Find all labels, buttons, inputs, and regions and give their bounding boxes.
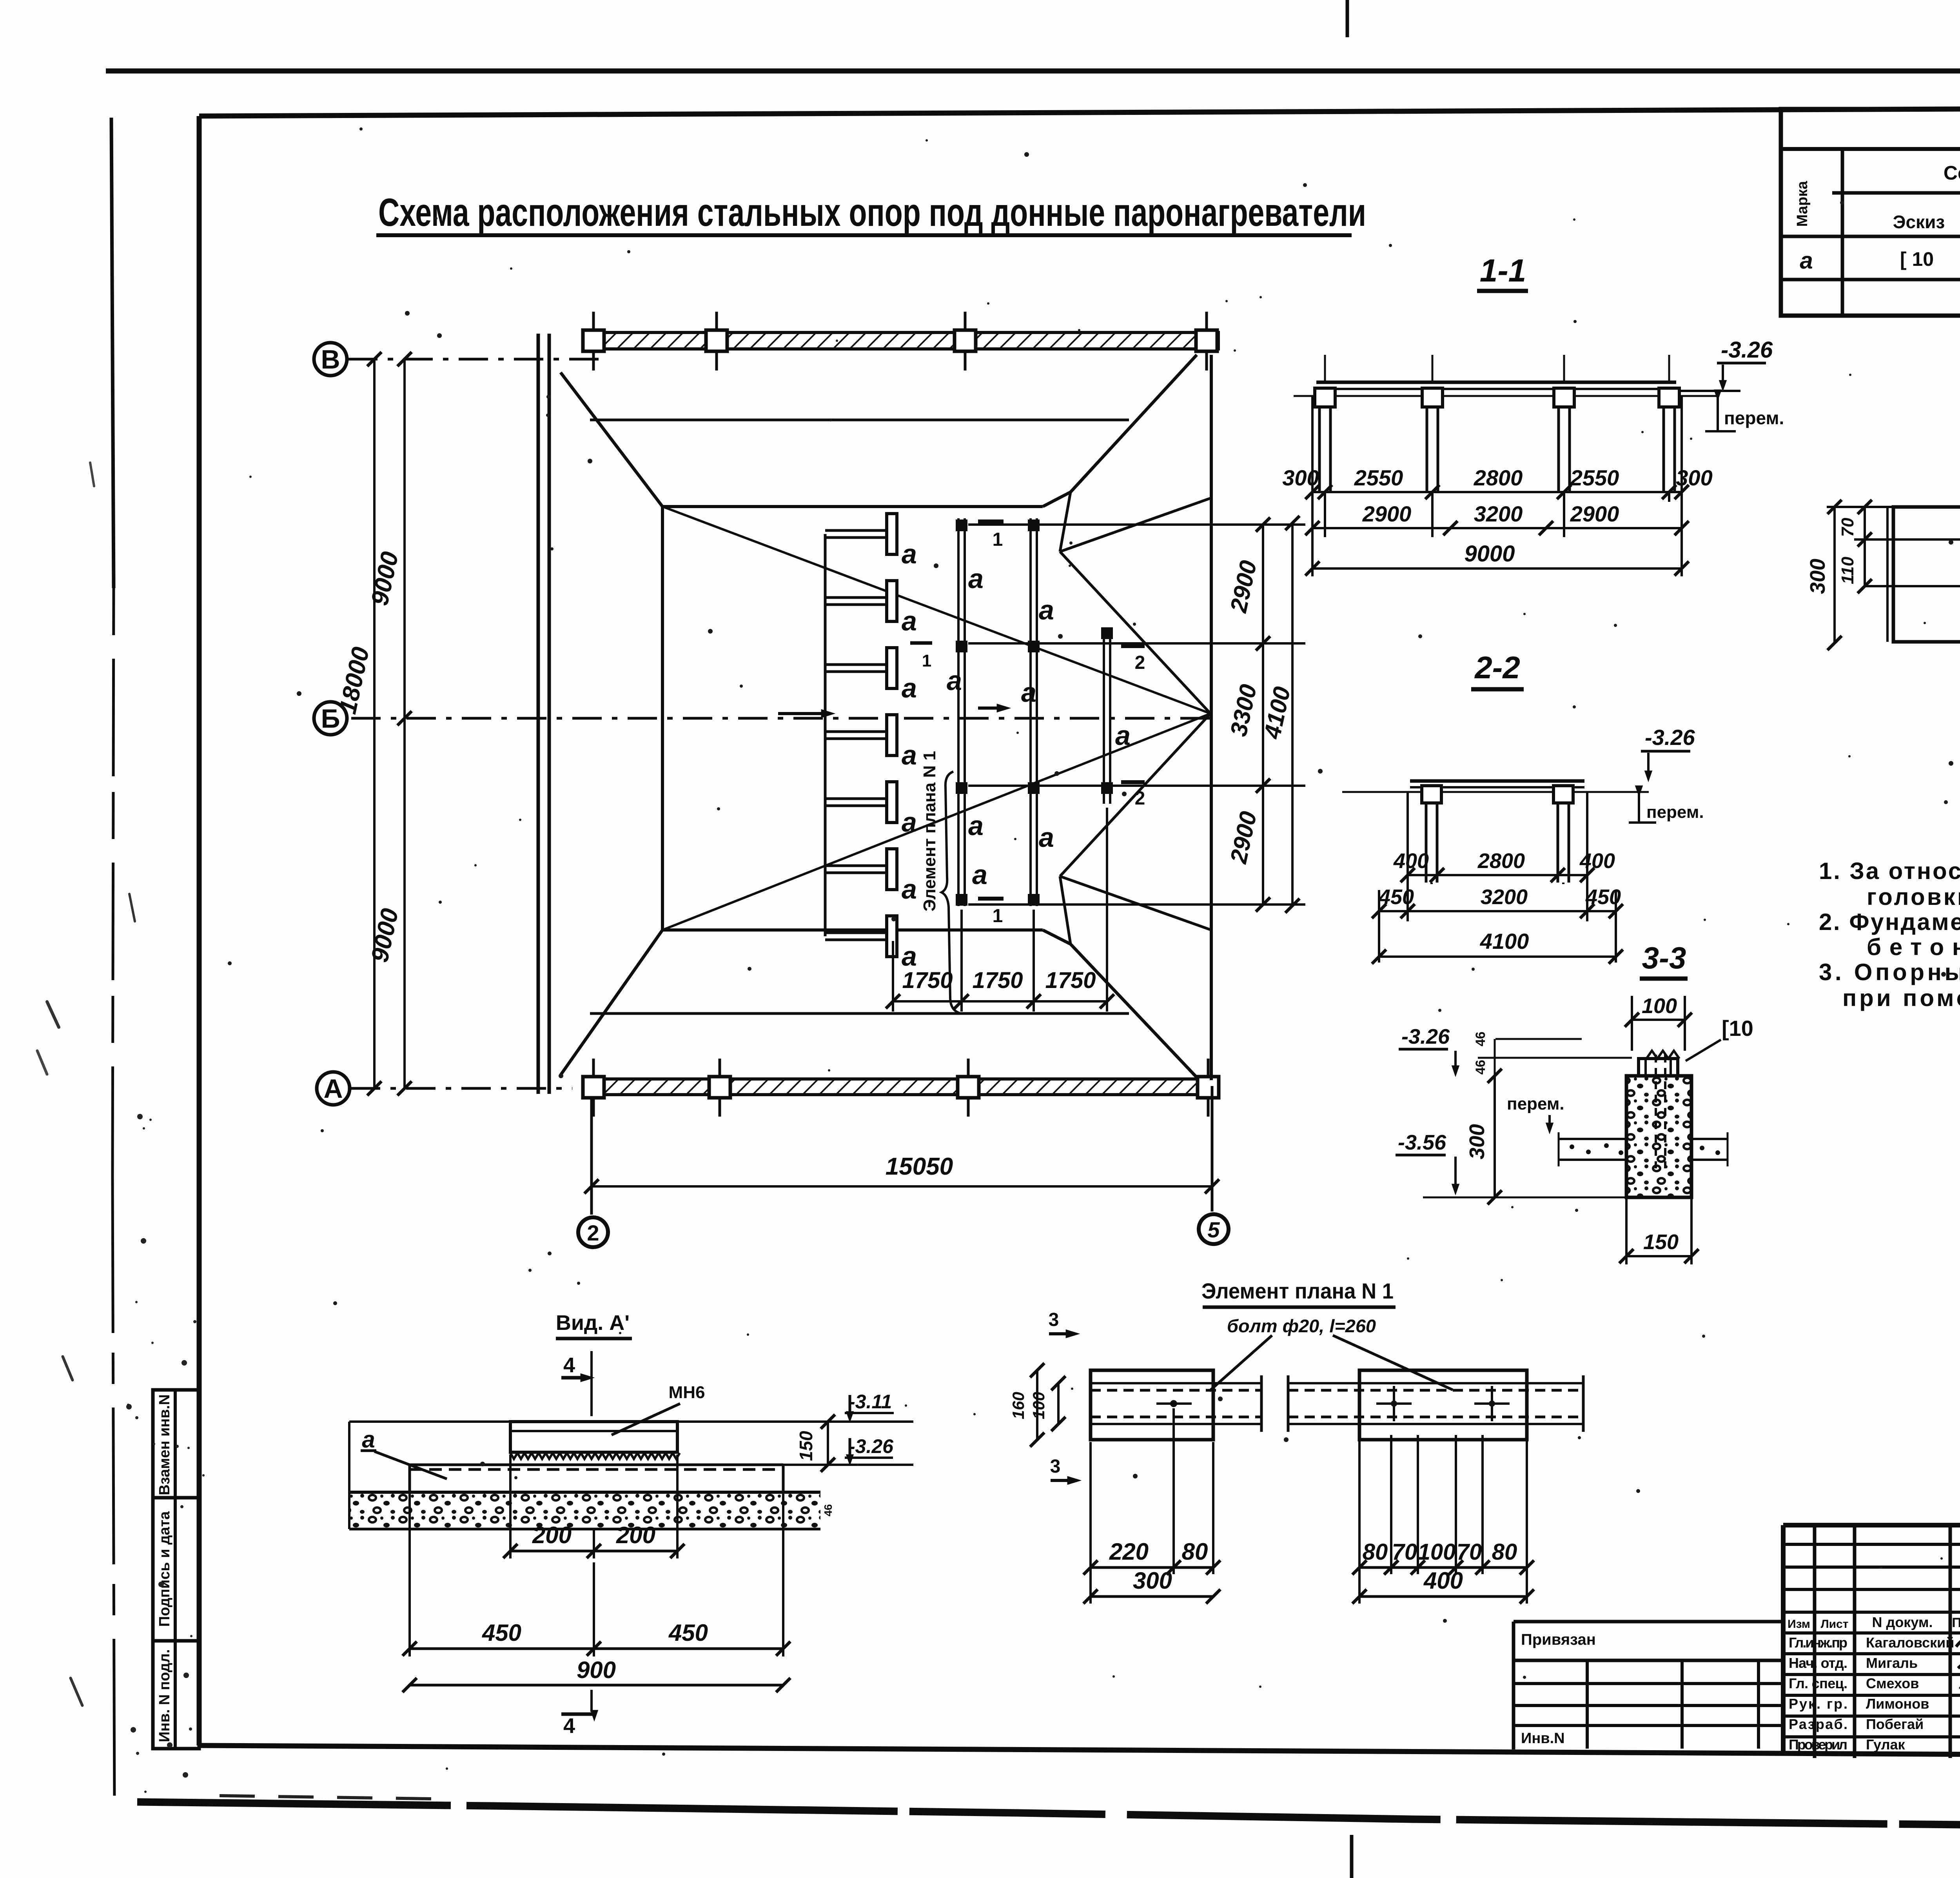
- svg-text:Лист: Лист: [1821, 1618, 1849, 1631]
- svg-text:400: 400: [1423, 1567, 1463, 1594]
- svg-text:a: a: [1039, 595, 1054, 625]
- svg-text:перем.: перем.: [1724, 408, 1784, 428]
- svg-text:a: a: [902, 539, 917, 569]
- svg-text:Марка: Марка: [1794, 181, 1811, 227]
- svg-text:Побегай: Побегай: [1866, 1716, 1924, 1732]
- svg-text:3: 3: [1049, 1310, 1059, 1330]
- svg-text:a: a: [1021, 677, 1036, 708]
- svg-text:1750: 1750: [1045, 968, 1096, 993]
- svg-text:a: a: [362, 1426, 375, 1453]
- svg-text:Гл.инж.пр: Гл.инж.пр: [1789, 1635, 1847, 1651]
- svg-text:5: 5: [1207, 1217, 1220, 1242]
- svg-text:при помощи болтов нормаль: при помощи болтов нормальной точности М2…: [1842, 985, 1960, 1011]
- svg-text:Элемент плана N 1: Элемент плана N 1: [1201, 1279, 1394, 1303]
- svg-text:-3.26: -3.26: [1401, 1025, 1450, 1048]
- svg-text:200: 200: [616, 1522, 655, 1548]
- svg-text:3200: 3200: [1474, 501, 1523, 526]
- svg-text:головки рельса , равная абс: головки рельса , равная абсолютной отмет…: [1867, 884, 1960, 910]
- svg-text:300: 300: [1282, 465, 1319, 490]
- svg-text:450: 450: [482, 1620, 521, 1646]
- svg-text:450: 450: [1585, 885, 1621, 909]
- svg-text:2900: 2900: [1570, 501, 1619, 526]
- svg-text:a: a: [1039, 822, 1054, 853]
- svg-text:9000: 9000: [366, 906, 404, 964]
- svg-text:Разраб.: Разраб.: [1789, 1716, 1847, 1732]
- svg-text:a: a: [902, 606, 917, 636]
- svg-text:N докум.: N докум.: [1872, 1614, 1933, 1630]
- svg-text:220: 220: [1109, 1538, 1149, 1565]
- svg-text:Схема расположения стальных: Схема расположения стальных опор под дон…: [378, 191, 1366, 234]
- svg-text:300: 300: [1133, 1567, 1172, 1594]
- svg-text:2900: 2900: [1225, 558, 1261, 615]
- svg-text:Гл. спец.: Гл. спец.: [1789, 1675, 1847, 1691]
- svg-text:100: 100: [1642, 994, 1677, 1018]
- svg-text:46: 46: [1473, 1060, 1488, 1075]
- svg-text:4: 4: [563, 1353, 575, 1377]
- svg-text:В: В: [321, 345, 340, 374]
- svg-text:бетонные из бетона М100: бетонные из бетона М100: [1867, 934, 1960, 960]
- svg-text:1: 1: [993, 529, 1003, 550]
- svg-text:150: 150: [796, 1431, 816, 1461]
- svg-text:Изм: Изм: [1788, 1618, 1810, 1631]
- svg-text:46: 46: [822, 1504, 834, 1516]
- svg-text:400: 400: [1393, 849, 1429, 873]
- svg-text:400: 400: [1579, 849, 1615, 873]
- svg-text:Лимонов: Лимонов: [1866, 1696, 1929, 1712]
- svg-text:2: 2: [587, 1221, 599, 1245]
- svg-text:Эскиз: Эскиз: [1893, 212, 1945, 232]
- svg-text:-3.56: -3.56: [1398, 1131, 1446, 1154]
- svg-text:200: 200: [532, 1522, 572, 1548]
- svg-text:110: 110: [1838, 556, 1857, 584]
- svg-text:Гулак: Гулак: [1866, 1736, 1905, 1753]
- svg-text:80: 80: [1182, 1538, 1208, 1565]
- svg-text:Сечение: Сечение: [1944, 162, 1960, 184]
- svg-text:300: 300: [1676, 465, 1712, 490]
- svg-text:-3.26: -3.26: [849, 1435, 894, 1457]
- svg-text:Взамен инв.N: Взамен инв.N: [156, 1394, 173, 1495]
- svg-text:1. За относительную отметк: 1. За относительную отметку ± 0.00 приня…: [1819, 858, 1960, 884]
- svg-text:3300: 3300: [1225, 682, 1261, 738]
- svg-text:1750: 1750: [902, 968, 953, 993]
- svg-text:1: 1: [993, 906, 1003, 926]
- svg-text:1: 1: [922, 651, 931, 670]
- svg-text:a: a: [1115, 720, 1131, 751]
- svg-text:2900: 2900: [1225, 809, 1261, 866]
- svg-text:a: a: [902, 941, 917, 972]
- svg-text:a: a: [968, 810, 984, 841]
- svg-text:100: 100: [1029, 1392, 1048, 1419]
- svg-text:-3.26: -3.26: [1721, 337, 1773, 363]
- svg-text:a: a: [902, 740, 917, 770]
- svg-text:70: 70: [1392, 1539, 1417, 1565]
- svg-text:300: 300: [1465, 1124, 1489, 1159]
- svg-text:100: 100: [1418, 1539, 1456, 1565]
- svg-text:Кагаловский: Кагаловский: [1866, 1635, 1954, 1651]
- svg-text:3. Опорный швеллер крепит: 3. Опорный швеллер крепится к фундамента…: [1819, 959, 1960, 985]
- svg-text:1-1: 1-1: [1480, 253, 1526, 289]
- svg-text:болт ф20, l=260: болт ф20, l=260: [1227, 1316, 1376, 1336]
- svg-text:Привязан: Привязан: [1521, 1631, 1596, 1648]
- svg-text:перем.: перем.: [1646, 803, 1704, 822]
- svg-text:Подпись: Подпись: [1952, 1615, 1960, 1630]
- svg-text:Инв.N: Инв.N: [1521, 1730, 1565, 1747]
- svg-text:Элемент плана N 1: Элемент плана N 1: [920, 751, 939, 912]
- svg-text:Смехов: Смехов: [1866, 1675, 1919, 1691]
- svg-text:2-2: 2-2: [1474, 650, 1520, 685]
- svg-text:-3.26: -3.26: [1645, 725, 1695, 750]
- svg-text:15050: 15050: [886, 1153, 953, 1180]
- svg-text:150: 150: [1643, 1230, 1679, 1254]
- svg-text:1750: 1750: [972, 968, 1023, 993]
- svg-text:9000: 9000: [366, 549, 404, 608]
- svg-text:-3.11: -3.11: [849, 1391, 892, 1413]
- svg-text:3-3: 3-3: [1642, 941, 1686, 975]
- svg-text:Проверил: Проверил: [1789, 1736, 1847, 1753]
- svg-text:перем.: перем.: [1507, 1094, 1564, 1113]
- svg-text:4100: 4100: [1480, 929, 1529, 954]
- svg-text:a: a: [968, 563, 984, 594]
- svg-text:4100: 4100: [1259, 684, 1295, 741]
- svg-text:Вид. А': Вид. А': [556, 1311, 630, 1335]
- svg-text:a: a: [1800, 247, 1813, 274]
- svg-text:a: a: [972, 859, 987, 890]
- svg-text:2800: 2800: [1477, 849, 1525, 873]
- svg-text:2550: 2550: [1354, 465, 1403, 490]
- svg-text:450: 450: [668, 1620, 708, 1646]
- svg-text:4: 4: [563, 1714, 575, 1738]
- svg-text:a: a: [947, 665, 962, 696]
- svg-text:18000: 18000: [334, 645, 374, 716]
- svg-text:Мигаль: Мигаль: [1866, 1655, 1918, 1671]
- svg-text:Рук. гр.: Рук. гр.: [1789, 1696, 1847, 1712]
- svg-text:Инв. N подл.: Инв. N подл.: [156, 1649, 173, 1742]
- svg-text:80: 80: [1492, 1539, 1517, 1565]
- svg-text:2900: 2900: [1362, 501, 1412, 526]
- svg-text:3: 3: [1050, 1456, 1061, 1477]
- svg-text:70: 70: [1457, 1539, 1482, 1565]
- svg-text:3200: 3200: [1481, 885, 1528, 909]
- svg-text:2800: 2800: [1474, 465, 1523, 490]
- svg-text:А: А: [323, 1074, 343, 1104]
- svg-text:900: 900: [577, 1657, 616, 1683]
- svg-text:46: 46: [1473, 1032, 1488, 1046]
- svg-text:450: 450: [1378, 885, 1414, 909]
- svg-text:300: 300: [1806, 559, 1829, 594]
- svg-text:80: 80: [1363, 1539, 1388, 1565]
- svg-text:a: a: [902, 673, 917, 703]
- svg-text:9000: 9000: [1464, 541, 1515, 567]
- svg-text:160: 160: [1009, 1392, 1027, 1419]
- svg-text:[10: [10: [1722, 1016, 1753, 1041]
- svg-text:2. Фундаменты под опорные: 2. Фундаменты под опорные металлоконстру…: [1819, 909, 1960, 935]
- svg-text:Подпись и дата: Подпись и дата: [156, 1511, 173, 1627]
- svg-text:2: 2: [1135, 788, 1145, 809]
- svg-text:2: 2: [1135, 652, 1145, 673]
- svg-text:a: a: [902, 807, 917, 837]
- svg-text:[ 10: [ 10: [1900, 248, 1934, 270]
- svg-text:Нач. отд.: Нач. отд.: [1789, 1655, 1847, 1671]
- svg-text:70: 70: [1838, 518, 1857, 537]
- svg-text:МН6: МН6: [669, 1383, 705, 1402]
- svg-text:2550: 2550: [1570, 465, 1619, 490]
- svg-text:a: a: [902, 874, 917, 904]
